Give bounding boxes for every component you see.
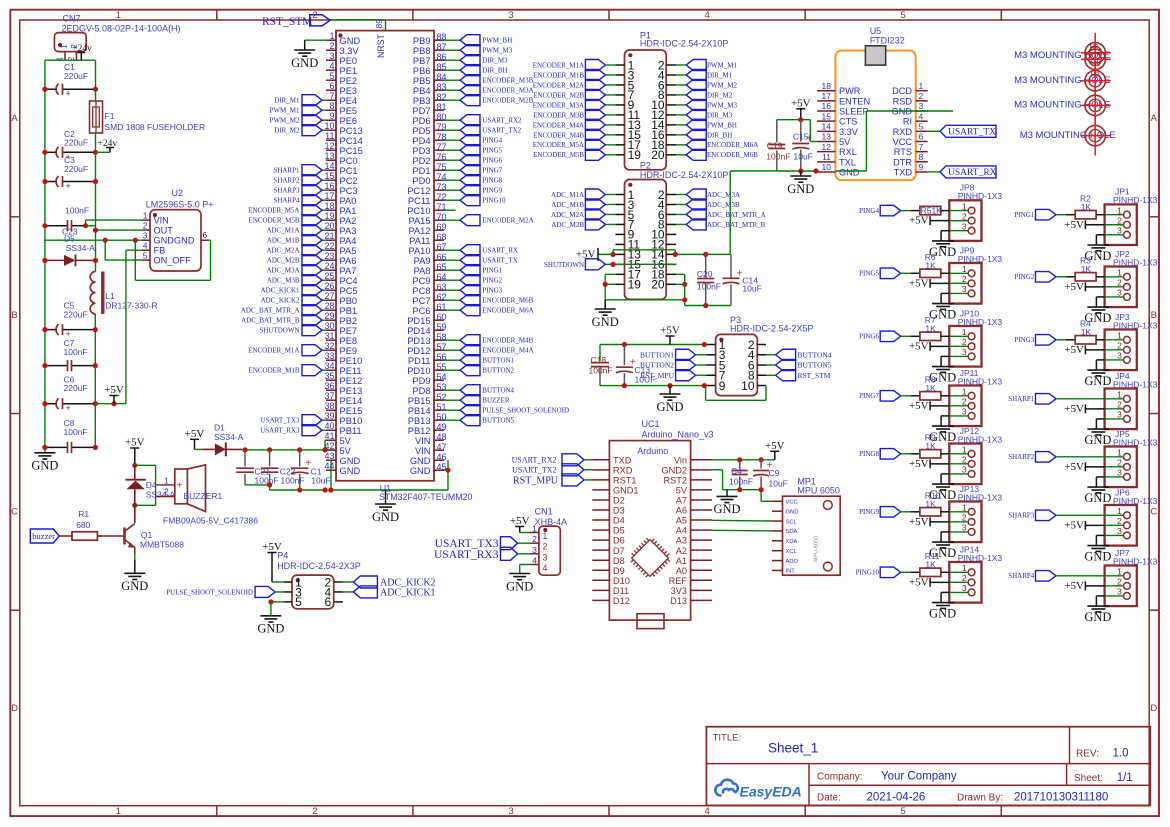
svg-text:BUZZER1: BUZZER1 <box>184 491 223 501</box>
power +5V at P3 <box>666 335 675 337</box>
U1 pin 20 PA3 <box>326 229 336 231</box>
ground JP7 <box>1087 605 1109 607</box>
svg-text:3: 3 <box>962 465 967 475</box>
UC1 pin left D12 <box>592 599 609 601</box>
svg-text:REV:: REV: <box>1076 749 1099 760</box>
svg-text:ENCODER_M1A: ENCODER_M1A <box>533 61 584 69</box>
wire right rail lower <box>94 314 96 448</box>
U1 pin 57 PD12 <box>434 349 444 351</box>
U1 pin 56 PD11 <box>434 359 444 361</box>
U1 pin 60 PD15 <box>434 319 444 321</box>
resistor R2 1K <box>1056 214 1066 216</box>
wire+flag ENCODER_M4B <box>444 339 460 341</box>
wire+flag PING8 <box>444 179 460 181</box>
svg-text:GND: GND <box>929 607 956 621</box>
U2 pin 2 OUT <box>142 229 150 231</box>
P2 pin 7 <box>615 223 624 225</box>
ground P3 <box>669 386 671 394</box>
svg-text:PD13: PD13 <box>407 336 430 346</box>
svg-text:SMD 1808 FUSEHOLDER: SMD 1808 FUSEHOLDER <box>105 122 206 132</box>
svg-text:1: 1 <box>962 264 967 274</box>
capacitor C20 100nF <box>705 254 707 278</box>
wire P3 top rail <box>600 344 707 346</box>
resistor R3 1K <box>1056 276 1066 278</box>
net flag PING10 <box>880 567 901 578</box>
svg-text:ENCODER_M4A: ENCODER_M4A <box>533 121 584 129</box>
U1 pin 52 PB15 <box>434 399 444 401</box>
ground JP5 <box>1087 486 1109 488</box>
wire+flag ENCODER_M6B <box>676 154 686 156</box>
wire JP2 pin3 to ground <box>1096 296 1104 298</box>
svg-text:PD5: PD5 <box>412 126 430 136</box>
connector JP14 PINHD-1X3 <box>949 562 981 603</box>
svg-text:+5V: +5V <box>185 428 205 440</box>
svg-text:PB13: PB13 <box>408 416 431 426</box>
wire+flag ADC_M1A <box>605 194 615 196</box>
CN7 pin 1 <box>64 52 66 61</box>
svg-text:LM2596S-5.0 P+: LM2596S-5.0 P+ <box>146 199 214 209</box>
svg-text:10uF: 10uF <box>794 151 813 161</box>
svg-text:5: 5 <box>329 71 334 81</box>
svg-text:2: 2 <box>1117 458 1122 468</box>
svg-text:ADC_M1A: ADC_M1A <box>551 191 584 199</box>
svg-text:DIR_M2: DIR_M2 <box>274 127 300 135</box>
svg-text:45: 45 <box>437 462 447 472</box>
svg-text:P2: P2 <box>640 160 651 170</box>
svg-text:4: 4 <box>329 61 334 71</box>
svg-text:PB14: PB14 <box>408 406 431 416</box>
resistor R6 1K <box>901 272 911 274</box>
UC1 chip glyph <box>627 535 674 582</box>
svg-text:17: 17 <box>822 91 832 101</box>
svg-text:FTDI232: FTDI232 <box>870 35 905 45</box>
svg-text:5V: 5V <box>676 486 688 496</box>
UC1 pin left RST1 <box>592 479 609 481</box>
wire P2 pin14 to U5 ground rail <box>676 253 730 255</box>
net flag ADC_KICK1 <box>343 591 354 593</box>
connector JP13 PINHD-1X3 <box>949 502 981 543</box>
wire right rail <box>95 152 97 271</box>
resistor R1 680 <box>59 535 72 537</box>
svg-text:+5V: +5V <box>1064 344 1084 356</box>
P2 pin 12 <box>666 243 676 245</box>
svg-text:PE8: PE8 <box>340 336 358 346</box>
svg-text:PD1: PD1 <box>412 166 430 176</box>
wire+flag ADC_BAT_MTR_B <box>676 223 686 225</box>
svg-text:GND: GND <box>410 456 431 466</box>
U1 pin 73 PC12 <box>434 189 444 191</box>
UC1 pin right Vin <box>691 459 712 461</box>
svg-text:PD0: PD0 <box>412 176 430 186</box>
svg-text:USART_TX2: USART_TX2 <box>512 466 556 475</box>
svg-text:1: 1 <box>962 503 967 513</box>
U1 pin 7 PE4 <box>326 99 336 101</box>
U1 pin 45 GND <box>434 469 444 471</box>
UC1 pin left D7 <box>592 549 609 551</box>
svg-text:FB: FB <box>154 246 166 256</box>
wire+flag RST_STM <box>766 374 776 376</box>
svg-text:2: 2 <box>962 274 967 284</box>
capacitor C15 10uF <box>800 120 802 142</box>
svg-text:2: 2 <box>962 455 967 465</box>
wire JP4 pin3 to ground <box>1096 418 1104 420</box>
svg-text:D12: D12 <box>613 596 630 606</box>
svg-text:HDR-IDC-2.54-2X10P: HDR-IDC-2.54-2X10P <box>640 39 729 49</box>
svg-text:PINHD-1X3: PINHD-1X3 <box>1113 379 1158 389</box>
ground JP4 <box>1087 428 1109 430</box>
svg-text:3.3V: 3.3V <box>340 46 360 56</box>
wire+flag ENCODER_M3B <box>444 79 460 81</box>
svg-text:1: 1 <box>919 81 924 91</box>
svg-text:Date:: Date: <box>817 793 841 804</box>
ground U1 pin1 <box>294 49 315 51</box>
wire+flag ENCODER_M5B <box>322 219 326 221</box>
svg-text:11: 11 <box>325 131 334 141</box>
svg-text:3: 3 <box>532 545 537 555</box>
MP1 pin ADO <box>772 560 783 562</box>
P3 pin 6 <box>757 364 766 366</box>
svg-text:42: 42 <box>324 441 334 451</box>
svg-text:1K: 1K <box>925 441 936 451</box>
svg-text:SS34-A: SS34-A <box>146 490 176 500</box>
svg-text:SHARP2: SHARP2 <box>273 177 300 185</box>
U1 pin 51 PB14 <box>434 409 444 411</box>
wire+flag PING9 <box>444 189 460 191</box>
wire MP1 SCL to A5 <box>712 519 772 522</box>
wire+flag PWM_M1 <box>676 64 686 66</box>
svg-text:ENCODER_M6A: ENCODER_M6A <box>482 307 533 315</box>
svg-text:PD10: PD10 <box>407 366 430 376</box>
power +5V at JP2 <box>1084 282 1086 291</box>
wire U2 OUT <box>96 229 143 231</box>
power +5V at JP10 <box>929 342 931 351</box>
wire+flag ENCODER_M3A <box>605 104 615 106</box>
MP1 pin SDA <box>772 530 783 532</box>
svg-text:GND: GND <box>592 315 619 329</box>
svg-text:41: 41 <box>324 431 334 441</box>
svg-text:ENCODER_M1A: ENCODER_M1A <box>248 347 299 355</box>
diode D1 SS34-A <box>195 448 203 450</box>
svg-text:SLEEP: SLEEP <box>839 107 869 117</box>
svg-text:1: 1 <box>1117 390 1122 400</box>
svg-text:PING10: PING10 <box>482 197 506 205</box>
wire+flag USART_RX3 <box>322 429 326 431</box>
svg-text:GND: GND <box>121 579 148 593</box>
svg-text:PC8: PC8 <box>412 286 430 296</box>
svg-text:11: 11 <box>822 152 831 162</box>
U1 pin 48 VIN <box>434 439 444 441</box>
svg-text:XDA: XDA <box>786 539 798 545</box>
svg-text:OUT: OUT <box>154 226 174 236</box>
UC1 pin left D2 <box>592 499 609 501</box>
svg-text:GND1: GND1 <box>613 486 639 496</box>
P4 pin 3 <box>284 591 292 593</box>
svg-text:3: 3 <box>1117 410 1122 420</box>
svg-text:1K: 1K <box>925 261 936 271</box>
connector P1 HDR-IDC-2.54-2X10P <box>625 50 667 170</box>
svg-text:GND: GND <box>340 466 361 476</box>
U1 pin 89 NRST <box>330 19 385 21</box>
U1 pin 5 PE2 <box>326 79 336 81</box>
wire JP3 pin3 to ground <box>1096 359 1104 361</box>
U1 pin 85 PB6 <box>434 69 444 71</box>
svg-text:A3: A3 <box>676 536 687 546</box>
svg-text:6: 6 <box>203 230 208 240</box>
svg-text:PING6: PING6 <box>482 157 502 165</box>
svg-text:PE6: PE6 <box>340 116 358 126</box>
svg-text:PA5: PA5 <box>340 246 357 256</box>
ground JP14 <box>932 602 954 604</box>
svg-text:PE1: PE1 <box>340 66 358 76</box>
U1 pin 31 PE8 <box>326 339 336 341</box>
svg-text:2: 2 <box>329 41 334 51</box>
P3 pin 5 <box>707 364 716 366</box>
svg-text:buzzer: buzzer <box>32 531 55 541</box>
svg-text:PC6: PC6 <box>412 306 430 316</box>
wire+flag PWM_M1 <box>322 109 326 111</box>
wire stub at U1 pin 71 <box>444 209 456 211</box>
svg-text:PC5: PC5 <box>340 286 358 296</box>
svg-text:PB7: PB7 <box>413 56 431 66</box>
EasyEDA logo <box>715 780 738 796</box>
power +5V at JP9 <box>929 279 931 288</box>
svg-text:PING2: PING2 <box>1014 273 1034 281</box>
resistor R4 1K <box>1056 339 1066 341</box>
ground JP10 <box>932 366 954 368</box>
svg-text:2: 2 <box>962 513 967 523</box>
U1 pin 71 PC10 <box>434 209 444 211</box>
U1 pin 23 PA6 <box>326 259 336 261</box>
svg-text:5V: 5V <box>340 436 352 446</box>
capacitor C3 220uF <box>45 181 57 183</box>
wire+flag PWM_M3 <box>676 104 686 106</box>
svg-text:35: 35 <box>324 371 334 381</box>
U2 pin 3 GNDGND <box>142 239 150 241</box>
svg-text:ENCODER_M2B: ENCODER_M2B <box>482 97 533 105</box>
svg-text:RST_STM: RST_STM <box>798 371 831 380</box>
svg-text:PB5: PB5 <box>413 76 431 86</box>
svg-text:PB8: PB8 <box>413 46 431 56</box>
P2 pin 13 <box>615 253 624 255</box>
svg-text:ADC_M2B: ADC_M2B <box>267 257 300 265</box>
ground UC1 <box>726 490 728 496</box>
svg-text:GND: GND <box>786 509 799 515</box>
wire+flag BUTTON2 <box>444 369 460 371</box>
mounting hole H5 <box>1085 125 1105 145</box>
svg-text:RST_MPU: RST_MPU <box>513 475 559 486</box>
svg-text:+5V: +5V <box>909 458 929 470</box>
svg-text:PWM_M3: PWM_M3 <box>482 47 512 55</box>
MP1 pin XCL <box>772 550 783 552</box>
svg-text:USART_TX: USART_TX <box>482 257 517 265</box>
svg-text:PC9: PC9 <box>412 276 430 286</box>
power +5V buzzer <box>130 447 139 449</box>
wire+flag ADC_BAT_MTR_A <box>322 309 326 311</box>
svg-text:36: 36 <box>324 381 334 391</box>
svg-text:1: 1 <box>59 44 69 49</box>
connector CN1 XHB-4A <box>539 526 560 575</box>
svg-text:+5V: +5V <box>262 541 282 553</box>
net flag USART_RX3 <box>518 553 531 555</box>
U1 pin 70 PA15 <box>434 219 444 221</box>
svg-text:3: 3 <box>508 806 513 817</box>
P1 pin 3 <box>615 74 624 76</box>
svg-text:USART_TX2: USART_TX2 <box>482 127 521 135</box>
U1 pin 27 PB0 <box>326 299 336 301</box>
U5 pin 16 SLEEP <box>817 110 835 112</box>
U5 pin 3 GND <box>916 110 928 112</box>
P1 pin 17 <box>615 144 624 146</box>
mcu U1 STM32F407 box <box>336 31 434 481</box>
svg-text:A: A <box>1151 113 1158 124</box>
U1 pin 33 PE10 <box>326 359 336 361</box>
svg-text:1: 1 <box>962 445 967 455</box>
svg-text:3: 3 <box>962 523 967 533</box>
svg-text:GND: GND <box>506 579 533 593</box>
U1 pin 34 PE11 <box>326 369 336 371</box>
svg-text:2: 2 <box>312 806 317 817</box>
connector P4 HDR-IDC-2.54-2X3P <box>292 575 334 609</box>
U1 pin 75 PD1 <box>434 169 444 171</box>
UC1 pin left D6 <box>592 539 609 541</box>
P2 pin 8 <box>666 223 676 225</box>
ground CN1 <box>509 573 530 575</box>
svg-text:33: 33 <box>324 351 334 361</box>
svg-text:SHARP3: SHARP3 <box>273 187 300 195</box>
svg-text:PD14: PD14 <box>407 326 430 336</box>
svg-text:2: 2 <box>1117 400 1122 410</box>
U1 pin 74 PD0 <box>434 179 444 181</box>
svg-text:Sheet_1: Sheet_1 <box>768 741 818 756</box>
wire+flag ENCODER_M4B <box>605 134 615 136</box>
U1 pin 83 PB4 <box>434 89 444 91</box>
svg-text:A5: A5 <box>676 516 687 526</box>
wire+flag PWM_BH <box>676 124 686 126</box>
svg-text:201710130311180: 201710130311180 <box>1014 792 1108 804</box>
net port USART_RX <box>928 171 940 173</box>
svg-text:XCL: XCL <box>786 549 798 555</box>
svg-text:10: 10 <box>741 379 755 393</box>
svg-text:PC15: PC15 <box>340 146 363 156</box>
P1 pin 6 <box>666 84 676 86</box>
wire+flag SHARP1 <box>322 169 326 171</box>
svg-text:GND: GND <box>372 510 399 524</box>
svg-text:+5V: +5V <box>1064 403 1084 415</box>
svg-text:100nF: 100nF <box>65 206 89 216</box>
connector JP4 PINHD-1X3 <box>1105 389 1137 430</box>
P1 pin 16 <box>666 134 676 136</box>
svg-text:DIR_M1: DIR_M1 <box>707 71 733 79</box>
P2 pin 17 <box>615 273 624 275</box>
UC1 pin left D9 <box>592 569 609 571</box>
svg-text:VCC: VCC <box>786 500 798 506</box>
wire+flag BUTTON1 <box>444 359 460 361</box>
svg-text:3: 3 <box>1117 288 1122 298</box>
power +5V at CN1 <box>515 526 524 528</box>
U5 pin 9 TXD <box>916 171 928 173</box>
svg-text:PB2: PB2 <box>340 316 358 326</box>
connector P2 HDR-IDC-2.54-2X10P <box>625 180 667 300</box>
svg-text:PINHD-1X3: PINHD-1X3 <box>1113 195 1158 205</box>
mounting hole H1 <box>1085 49 1105 69</box>
svg-text:PC2: PC2 <box>340 176 358 186</box>
resistor R5 1K <box>901 210 911 212</box>
svg-text:PA11: PA11 <box>409 236 430 246</box>
U1 pin 87 PB8 <box>434 49 444 51</box>
module UC1 Arduino_Nano_v3 <box>609 441 690 620</box>
U1 pin 65 PA8 <box>434 269 444 271</box>
wire+flag PULSE_SHOOT_SOLENOID <box>444 409 460 411</box>
power +5V at JP8 <box>929 216 931 225</box>
svg-text:C4: C4 <box>731 466 742 476</box>
wire VIN to U2 <box>86 225 96 227</box>
wire GND row to U2 pin3 <box>45 239 142 241</box>
U5 pin 11 TXL <box>817 161 835 163</box>
U5 pin 17 ENTEN <box>817 100 835 102</box>
UC1 pin right 5V <box>691 489 712 491</box>
svg-text:18: 18 <box>822 81 832 91</box>
connector JP1 PINHD-1X3 <box>1105 204 1137 245</box>
svg-text:RTS: RTS <box>894 147 912 157</box>
svg-text:+5V: +5V <box>1064 461 1084 473</box>
svg-text:PC13: PC13 <box>340 126 363 136</box>
svg-text:PULSE_SHOOT_SOLENOID: PULSE_SHOOT_SOLENOID <box>166 589 253 597</box>
svg-text:48: 48 <box>437 432 447 442</box>
svg-text:3: 3 <box>962 284 967 294</box>
capacitor C18 100nF <box>599 345 601 362</box>
wire CN1 pin4 to ground <box>520 564 530 566</box>
svg-text:ENCODER_M3A: ENCODER_M3A <box>533 101 584 109</box>
svg-text:+24v: +24v <box>98 139 118 149</box>
svg-text:1K: 1K <box>925 499 936 509</box>
P2 pin 18 <box>666 273 676 275</box>
svg-text:ADC_M3B: ADC_M3B <box>707 201 740 209</box>
net flag PING6 <box>880 331 901 342</box>
svg-text:100nF: 100nF <box>64 427 88 437</box>
wire+flag USART_RX2 <box>444 119 460 121</box>
svg-text:PA8: PA8 <box>414 266 431 276</box>
P4 pin 6 <box>334 601 343 603</box>
U1 pin 61 PC6 <box>434 309 444 311</box>
ground left rail <box>34 452 55 454</box>
wire+flag ADC_KICK2 <box>322 299 326 301</box>
wire+flag PWM_BH <box>444 39 460 41</box>
svg-text:81: 81 <box>437 102 447 112</box>
svg-text:Arduino_Nano_v3: Arduino_Nano_v3 <box>642 430 714 440</box>
svg-text:PA10: PA10 <box>408 246 430 256</box>
wire+flag PING5 <box>444 149 460 151</box>
svg-text:+5V: +5V <box>510 515 530 527</box>
svg-text:100nF: 100nF <box>766 151 790 161</box>
svg-text:2: 2 <box>532 534 537 544</box>
svg-text:10uF: 10uF <box>769 479 788 489</box>
svg-text:PING1: PING1 <box>482 267 502 275</box>
U5 pin 1 DCD <box>916 90 928 92</box>
svg-text:3: 3 <box>508 10 513 21</box>
svg-text:GND: GND <box>1084 491 1111 505</box>
wire+flag PWM_M3 <box>444 49 460 51</box>
svg-text:13: 13 <box>324 151 334 161</box>
svg-text:+5V: +5V <box>125 437 145 449</box>
svg-text:PWM_M3: PWM_M3 <box>707 101 737 109</box>
svg-text:Vin: Vin <box>674 455 687 465</box>
svg-text:ENTEN: ENTEN <box>839 96 870 106</box>
svg-text:PC7: PC7 <box>412 296 430 306</box>
power +24v tap 2 <box>96 151 111 153</box>
svg-text:BUTTON5: BUTTON5 <box>798 361 832 370</box>
svg-text:SHARP4: SHARP4 <box>273 197 300 205</box>
U5 pin 6 VCC <box>916 141 928 143</box>
